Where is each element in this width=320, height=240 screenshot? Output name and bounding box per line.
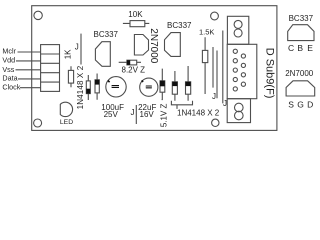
svg-text:1N4148 X 2: 1N4148 X 2 <box>76 65 85 109</box>
svg-text:10K: 10K <box>128 10 143 19</box>
svg-text:C: C <box>288 43 294 53</box>
svg-text:Data: Data <box>2 74 17 83</box>
svg-text:D Sub9(F): D Sub9(F) <box>264 48 276 99</box>
svg-text:J: J <box>223 99 227 108</box>
svg-text:2N7000: 2N7000 <box>148 28 159 63</box>
svg-text:S: S <box>288 100 294 110</box>
svg-text:1K: 1K <box>64 49 73 59</box>
svg-text:BC337: BC337 <box>94 30 119 39</box>
svg-text:Mclr: Mclr <box>2 47 16 56</box>
svg-text:LED: LED <box>60 119 73 126</box>
svg-text:16V: 16V <box>140 110 155 119</box>
svg-text:D: D <box>307 100 313 110</box>
svg-text:1N4148 X 2: 1N4148 X 2 <box>177 109 220 118</box>
svg-text:J: J <box>75 43 79 52</box>
svg-text:1.5K: 1.5K <box>199 28 214 37</box>
svg-text:8.2V Z: 8.2V Z <box>122 65 146 74</box>
svg-text:Vdd: Vdd <box>2 55 15 64</box>
svg-text:Clock: Clock <box>2 82 20 91</box>
svg-text:Vss: Vss <box>2 65 14 74</box>
svg-text:2N7000: 2N7000 <box>285 69 314 78</box>
svg-text:25V: 25V <box>104 110 119 119</box>
svg-text:B: B <box>297 43 303 53</box>
svg-text:J: J <box>131 108 135 117</box>
svg-text:5.1V Z: 5.1V Z <box>159 104 168 128</box>
svg-text:G: G <box>297 100 304 110</box>
svg-text:E: E <box>307 43 313 53</box>
svg-text:BC337: BC337 <box>289 14 314 23</box>
svg-text:BC337: BC337 <box>167 21 192 30</box>
svg-text:J: J <box>212 92 216 101</box>
